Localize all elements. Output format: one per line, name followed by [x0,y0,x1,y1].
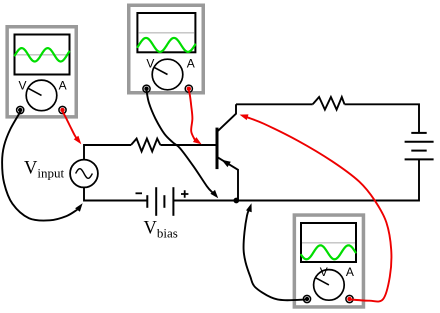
wire: V_input top node to R1 [84,145,131,160]
multimeter M3: display screen [301,223,356,262]
battery V_supply: short plate [411,150,426,152]
battery V_supply: short (negative) plate [411,132,426,134]
resistor R1 (series base resistor) [131,139,160,152]
multimeter M3: red (measure) jack [346,295,353,302]
wire: R1 to transistor base [160,144,215,146]
svg-text:A: A [59,79,67,93]
multimeter M1: selector dial [26,80,57,111]
wire: lower rail emitter junction to supply battery [236,159,419,200]
svg-text:Vinput: Vinput [24,159,64,181]
junction node: emitter / lower rail [233,198,239,204]
test lead: M3 red jack to collector node [248,117,392,301]
multimeter M2: display zero reference line [138,32,194,34]
battery V_bias: long plate [155,187,157,216]
battery V_supply: long plate [405,141,434,143]
multimeter M1: display screen [15,35,70,75]
multimeter M3: dial needle [315,278,329,285]
battery V_bias: short (negative) plate [146,195,148,208]
multimeter M3: selector dial [314,270,345,301]
svg-text:V: V [146,57,154,71]
AC source V_input [70,160,98,188]
svg-text:A: A [187,57,195,71]
test lead: M1 red jack to V_input top node [63,112,79,141]
test lead: M2 red jack to base wire node [189,91,195,141]
resistor R2 (collector load) [313,97,345,110]
multimeter M2: dial needle [154,67,168,74]
svg-text:V: V [320,265,328,279]
multimeter M2: display screen [137,13,195,52]
transistor Q1: collector lead [218,104,236,131]
wire: V_input bottom to lower rail [84,187,147,200]
battery V_supply: long (positive) plate [405,158,434,160]
wire: R2 to supply battery top [345,104,420,133]
multimeter M2: black (common) jack [143,85,150,92]
multimeter M2: green waveform trace [138,38,196,52]
transistor Q1: emitter lead with PNP arrow [218,158,238,201]
multimeter M1: black (common) jack [17,106,24,113]
test lead: M3 black jack to lower rail node [244,209,307,301]
multimeter M3: green waveform trace [301,245,355,259]
multimeter M3: black (common) jack [303,295,310,302]
wire: lower rail V_bias to emitter junction [173,200,236,202]
multimeter M1: outer gray case [7,27,76,117]
wire: collector to R2 [236,103,313,105]
battery V_bias: long (positive) plate [172,187,174,216]
multimeter M1: dial needle [28,88,42,95]
test lead: M2 black jack to emitter rail node [147,91,213,193]
multimeter M2: selector dial [152,59,183,90]
svg-text:V: V [18,79,26,93]
svg-text:Vbias: Vbias [144,219,178,241]
multimeter M1: display zero reference line [16,54,69,56]
multimeter M3: outer gray case [294,215,363,307]
test lead: M1 black jack to V_input bottom node [2,112,77,221]
transistor Q1: base bar [216,128,219,170]
multimeter M2: outer gray case [129,5,204,93]
AC source V_input sine symbol [76,169,93,179]
label: plus sign of V_bias [181,190,188,197]
svg-text:A: A [346,265,354,279]
multimeter M1: green waveform trace [15,48,69,61]
multimeter M1: red (measure) jack [59,106,66,113]
multimeter M3: display zero reference line [302,242,355,244]
label: minus sign of V_bias [136,192,143,194]
multimeter M2: red (measure) jack [185,85,192,92]
battery V_bias: short plate [163,195,165,208]
